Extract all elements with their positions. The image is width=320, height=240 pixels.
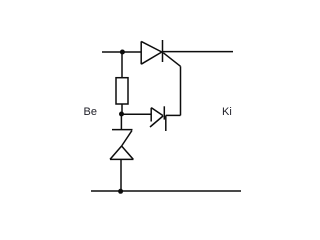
- thyristor V3 (bottom SCR): [110, 130, 134, 160]
- wire V3 to bottom rail: [120, 159, 122, 191]
- thyristor V2 (middle SCR): [150, 106, 166, 131]
- node label Be: [84, 107, 97, 118]
- node top junction: [120, 50, 125, 55]
- node middle junction: [119, 112, 124, 117]
- wire top rail: [102, 51, 233, 53]
- wire bottom rail: [91, 190, 241, 192]
- wire resistor to middle junction: [121, 104, 123, 114]
- node label Ki: [222, 107, 232, 118]
- thyristor V1 (top SCR): [141, 40, 162, 64]
- resistor R1: [116, 78, 128, 104]
- wire middle junction down to V3: [120, 114, 122, 130]
- wire middle junction to V2 anode: [122, 113, 152, 115]
- node bottom junction: [118, 189, 123, 194]
- wire V2 cathode to V1 gate: [163, 53, 180, 116]
- wire junction to resistor: [121, 52, 123, 78]
